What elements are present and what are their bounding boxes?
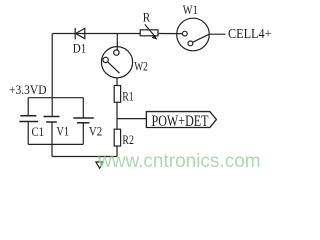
svg-text:R: R (143, 10, 151, 25)
svg-text:POW+DET: POW+DET (152, 113, 209, 130)
wire top-left horizontal to D1 (52, 33, 75, 35)
capacitor C1 (19, 116, 38, 122)
wire D1 to R (75, 33, 140, 35)
diode D1 (75, 28, 85, 40)
resistor R1 (114, 86, 120, 103)
wire R2 to ground line (116, 146, 118, 157)
wire R to W1 (158, 33, 182, 35)
capacitor V1 (44, 117, 60, 123)
svg-text:+3.3VD: +3.3VD (9, 82, 47, 97)
svg-text:W2: W2 (134, 59, 148, 74)
net flag POW+DET (146, 112, 216, 128)
svg-text:V2: V2 (89, 123, 102, 138)
wire V1 bottom lead (51, 122, 53, 144)
wire C1 top lead (27, 98, 29, 116)
svg-text:D1: D1 (73, 40, 87, 55)
wire R1 to R2 (116, 102, 118, 129)
svg-text:R1: R1 (122, 88, 134, 103)
switch W2 (101, 47, 132, 78)
wire junction to POW+DET flag (117, 118, 146, 120)
ground (96, 157, 103, 169)
svg-text:C1: C1 (32, 124, 45, 139)
power rail +3.3VD top (28, 97, 83, 99)
svg-text:V1: V1 (57, 123, 70, 138)
svg-text:CELL4+: CELL4+ (228, 26, 272, 41)
capacitor V2 (73, 118, 94, 123)
wire left vertical rail from corner down to V1 top plate (51, 34, 53, 117)
wire V2 top lead (82, 98, 84, 118)
wire rail down to ground line (51, 144, 53, 156)
wire junction top to W2 (116, 34, 118, 51)
wire W1 to CELL4+ (209, 33, 225, 35)
wire C1 bottom lead (27, 122, 29, 145)
wire ground horizontal line (52, 156, 117, 158)
svg-text:W1: W1 (183, 2, 198, 17)
resistor R2 (114, 129, 120, 146)
resistor R (adjustable) (140, 24, 158, 39)
wire bottom rail of capacitors (28, 143, 83, 145)
svg-text:www.cntronics.com: www.cntronics.com (97, 151, 261, 172)
wire W2 to R1 (116, 78, 118, 86)
wire V2 bottom lead (82, 123, 84, 145)
switch W1 (177, 18, 210, 51)
svg-text:R2: R2 (122, 132, 133, 147)
